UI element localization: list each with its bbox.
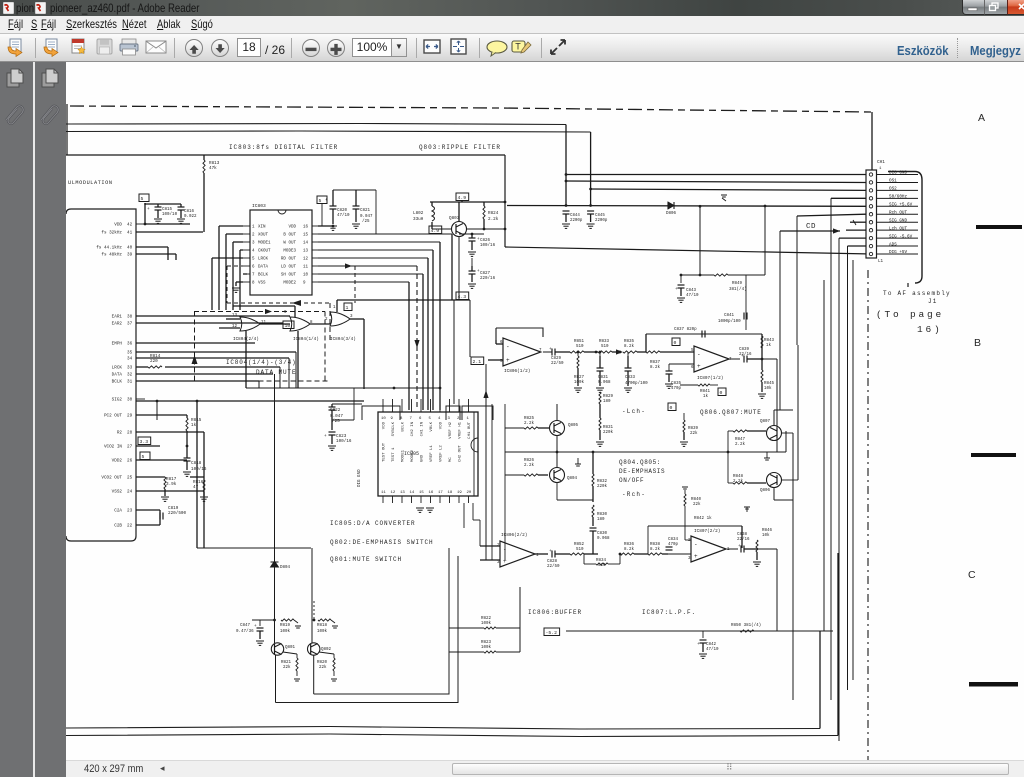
svg-text:35: 35 [127,351,133,356]
svg-text:1: 1 [879,167,882,171]
svg-text:33uH: 33uH [413,217,424,222]
svg-text:R818: R818 [317,624,328,628]
svg-text:IC805:D/A CONVERTER: IC805:D/A CONVERTER [330,520,416,527]
svg-text:SYBCLK: SYBCLK [392,421,396,436]
svg-text:C829: C829 [551,357,562,361]
svg-text:11: 11 [381,491,386,495]
svg-text:8: 8 [400,417,403,421]
svg-text:C2B: C2B [114,524,122,529]
svg-text:DE-EMPHASIS: DE-EMPHASIS [619,468,665,475]
svg-text:C843: C843 [686,289,697,293]
svg-text:IC807:L.P.F.: IC807:L.P.F. [642,609,696,616]
svg-text:LD OUT: LD OUT [281,266,297,270]
svg-text:L802: L802 [413,211,424,216]
svg-text:220k: 220k [597,484,608,489]
svg-text:5: 5 [142,454,145,460]
svg-text:IC804(3/4): IC804(3/4) [330,337,356,342]
svg-text:8.2k: 8.2k [624,547,635,552]
svg-text:R826: R826 [524,459,535,463]
svg-text:DIG GND: DIG GND [358,469,362,487]
svg-text:180: 180 [597,518,605,522]
svg-text:R843: R843 [764,339,775,343]
svg-text:IC804(1/4)-(3/4):: IC804(1/4)-(3/4): [226,359,301,366]
svg-text:31: 31 [127,380,133,385]
svg-text:+: + [325,198,328,203]
svg-text:8: 8 [252,282,255,286]
svg-text:IC807(1/2): IC807(1/2) [697,376,723,381]
svg-text:1: 1 [252,226,255,230]
svg-text:XIN: XIN [258,226,266,230]
svg-text:100k: 100k [317,629,328,634]
svg-text:22/16: 22/16 [737,537,750,542]
svg-text:A: A [978,112,985,124]
svg-text:14: 14 [303,242,309,246]
svg-text:22/16: 22/16 [739,352,752,357]
svg-text:MC: MC [449,457,453,462]
svg-text:4: 4 [252,250,255,254]
svg-text:C827: C827 [480,272,491,276]
svg-text:C841: C841 [724,314,735,318]
svg-text:TEST OUT: TEST OUT [383,442,387,462]
svg-text:VREF L1: VREF L1 [430,445,434,462]
svg-text:C828: C828 [547,560,558,564]
svg-text:220k: 220k [603,430,614,435]
svg-text:10: 10 [285,323,291,329]
svg-text:IC803: IC803 [252,203,266,209]
svg-text:MODE2: MODE2 [411,449,415,462]
svg-text:22k: 22k [693,502,701,507]
svg-text:VCO2 OUT: VCO2 OUT [101,476,122,481]
svg-text:22k: 22k [283,665,291,670]
svg-text:CKOUT: CKOUT [258,250,271,254]
svg-text:38: 38 [127,315,133,320]
svg-text:Q802:DE-EMPHASIS SWITCH: Q802:DE-EMPHASIS SWITCH [330,539,434,546]
svg-text:VCO2 IN: VCO2 IN [104,445,122,450]
svg-text:6: 6 [419,417,422,421]
svg-text:20: 20 [467,491,472,495]
svg-text:L1: L1 [878,260,884,264]
svg-text:+: + [506,357,510,364]
svg-text:100/16: 100/16 [191,467,207,472]
svg-text:2200p: 2200p [570,219,583,223]
svg-text:R842 1k: R842 1k [694,516,712,521]
svg-text:15: 15 [419,491,424,495]
svg-text:220: 220 [150,359,158,364]
svg-text:J1: J1 [928,298,938,305]
svg-text:VSS: VSS [258,282,266,286]
svg-text:R836: R836 [624,543,635,547]
svg-text:TEST 1: TEST 1 [392,447,396,462]
svg-text:C815: C815 [162,208,173,212]
svg-text:28: 28 [127,431,133,436]
svg-text:100k: 100k [574,380,585,385]
svg-text:180: 180 [603,400,611,404]
svg-text:C844: C844 [570,214,580,218]
svg-text:39: 39 [127,253,133,258]
svg-text:2.2k: 2.2k [524,463,535,468]
svg-text:R830: R830 [597,513,608,517]
svg-text:0: 0 [674,340,677,346]
svg-text:PC2 OUT: PC2 OUT [104,414,122,419]
svg-text:11: 11 [303,266,309,270]
svg-text:C: C [968,569,976,581]
svg-text:10: 10 [303,274,309,278]
svg-text:+: + [697,642,700,647]
svg-text:12: 12 [391,491,396,495]
svg-text:MODE1: MODE1 [258,242,271,246]
svg-text:15: 15 [303,234,309,238]
svg-text:8.2k: 8.2k [650,547,661,552]
svg-text:24: 24 [127,490,133,495]
svg-text:R829: R829 [603,395,614,399]
svg-text:RD OUT: RD OUT [281,258,297,262]
svg-text:36: 36 [127,342,133,347]
svg-text:Q804.Q805:: Q804.Q805: [619,459,661,466]
svg-text:R846: R846 [762,529,773,533]
svg-text:8.2k: 8.2k [624,344,635,349]
svg-text:MODE1: MODE1 [402,449,406,462]
svg-text:10k: 10k [762,533,770,538]
svg-text:16: 16 [303,226,309,230]
svg-text:+: + [147,207,150,212]
svg-text:C839: C839 [739,348,750,352]
svg-text:R850 381(/4): R850 381(/4) [731,623,761,628]
svg-text:EAR1: EAR1 [112,315,123,320]
svg-text:R823: R823 [481,641,492,645]
svg-text:CH2 OUT: CH2 OUT [459,445,463,462]
svg-text:40: 40 [127,246,133,251]
svg-text:1: 1 [333,306,336,310]
svg-text:0: 0 [670,405,673,411]
svg-text:22/50: 22/50 [551,361,564,366]
svg-text:C816: C816 [184,210,195,214]
svg-text:IC806(1/2): IC806(1/2) [504,369,530,374]
svg-text:30: 30 [127,398,133,403]
svg-text:-: - [697,351,701,358]
svg-text:0.022: 0.022 [184,215,197,219]
svg-text:-5.2: -5.2 [546,630,558,636]
svg-text:R848: R848 [733,475,744,479]
svg-text:CH1 IN: CH1 IN [421,421,425,436]
svg-text:5: 5 [319,198,322,204]
svg-text:3: 3 [252,242,255,246]
svg-text:R851: R851 [574,340,585,344]
svg-text:47/10: 47/10 [686,293,699,298]
svg-text:SH OUT: SH OUT [281,274,297,278]
svg-text:SIG2: SIG2 [112,398,123,403]
svg-text:26: 26 [127,459,133,464]
svg-text:Q803:RIPPLE FILTER: Q803:RIPPLE FILTER [419,144,501,151]
svg-text:32: 32 [127,373,133,378]
svg-text:R849: R849 [732,282,743,286]
svg-text:510: 510 [601,345,609,349]
svg-text:MODE2: MODE2 [283,282,296,286]
svg-text:LRCK: LRCK [258,258,269,262]
svg-text:7: 7 [539,349,542,353]
svg-text:VREF H2: VREF H2 [449,421,453,438]
svg-text:1k: 1k [766,343,772,348]
svg-text:To AF assembly: To AF assembly [883,290,951,297]
svg-text:2.2k: 2.2k [735,442,746,447]
svg-text:25: 25 [127,476,133,481]
svg-text:VDD: VDD [288,226,296,230]
svg-text:510: 510 [576,345,584,349]
svg-text:R821: R821 [281,661,292,665]
svg-text:22k: 22k [690,431,698,436]
svg-text:C820: C820 [337,209,348,213]
svg-text:IC804(1/4): IC804(1/4) [293,337,319,342]
svg-text:510: 510 [576,548,584,552]
svg-text:C821: C821 [360,209,371,213]
svg-text:10k: 10k [764,386,772,391]
svg-text:VREF H1: VREF H1 [459,421,463,438]
svg-text:220/16: 220/16 [480,276,496,281]
svg-text:+: + [697,363,701,370]
svg-text:ON/OFF: ON/OFF [619,477,644,484]
svg-text:R840: R840 [691,498,702,502]
svg-text:R835: R835 [624,340,635,344]
svg-text:5: 5 [429,417,432,421]
svg-text:4.3: 4.3 [458,294,467,300]
svg-text:4: 4 [438,417,441,421]
svg-text:Q804: Q804 [567,477,578,481]
svg-text:VDD: VDD [383,421,387,429]
svg-text:19: 19 [457,491,462,495]
svg-text:GND: GND [421,454,425,462]
svg-text:47/10: 47/10 [337,213,350,218]
svg-text:fs 32kHz: fs 32kHz [101,231,122,236]
svg-text:fs 48kHz: fs 48kHz [101,253,122,258]
svg-text:27: 27 [127,445,133,450]
svg-text:C838: C838 [737,533,748,537]
svg-text:1: 1 [467,417,470,421]
svg-text:R847: R847 [735,438,746,442]
svg-text:VDD: VDD [114,223,122,228]
svg-text:VREF L2: VREF L2 [440,445,444,462]
svg-text:34: 34 [127,357,133,362]
svg-text:IC806:BUFFER: IC806:BUFFER [528,609,582,616]
svg-text:Q806.Q807:MUTE: Q806.Q807:MUTE [700,409,762,416]
svg-text:R852: R852 [574,543,585,547]
svg-text:R832: R832 [597,480,608,484]
svg-text:/25: /25 [362,219,370,224]
svg-text:C830: C830 [597,532,608,536]
svg-text:100/16: 100/16 [336,439,352,444]
svg-text:23: 23 [127,509,133,514]
svg-text:W OUT: W OUT [283,242,296,246]
svg-text:16: 16 [429,491,434,495]
svg-text:9: 9 [303,282,306,286]
svg-text:VDD2: VDD2 [112,459,123,464]
svg-text:12: 12 [303,258,309,262]
svg-text:CH1: CH1 [877,160,885,165]
svg-text:-: - [694,541,698,548]
svg-text:C842: C842 [706,643,717,647]
svg-text:4.9: 4.9 [431,228,440,234]
svg-text:2200p: 2200p [595,219,608,223]
svg-text:0.47/36: 0.47/36 [236,629,254,634]
svg-text:R831: R831 [603,426,614,430]
svg-text:R2: R2 [117,431,123,436]
svg-text:47k: 47k [209,166,217,171]
svg-text:-Lch-: -Lch- [622,408,646,415]
svg-text:3.3: 3.3 [140,439,149,445]
svg-text:B OUT: B OUT [283,234,296,238]
svg-text:5: 5 [141,196,144,202]
svg-text:fs 44.1kHz: fs 44.1kHz [96,246,122,251]
svg-text:R833: R833 [599,340,610,344]
svg-text:381(/4): 381(/4) [729,287,747,292]
svg-text:B: B [974,337,981,349]
svg-text:+: + [694,553,698,560]
svg-text:Q801:MUTE SWITCH: Q801:MUTE SWITCH [330,556,402,563]
svg-text:T: T [515,42,521,52]
svg-text:R834: R834 [596,559,607,563]
svg-text:7: 7 [410,417,413,421]
svg-text:16): 16) [917,324,943,335]
svg-text:22k: 22k [319,665,327,670]
svg-text:+: + [675,287,678,292]
svg-text:100/10: 100/10 [162,212,178,217]
svg-text:IC807(2/2): IC807(2/2) [694,529,720,534]
svg-text:220/500: 220/500 [168,511,186,516]
svg-text:DATA: DATA [258,266,269,270]
svg-text:42: 42 [127,223,133,228]
svg-text:Q805: Q805 [568,424,579,428]
svg-text:XOUT: XOUT [258,234,269,238]
svg-text:DATA: DATA [112,373,123,378]
svg-text:0.068: 0.068 [597,537,610,541]
svg-text:BCLK: BCLK [112,380,123,385]
svg-text:R838: R838 [650,543,661,547]
svg-text:ULMODULATION: ULMODULATION [68,180,113,186]
svg-text:100k: 100k [280,629,291,634]
svg-text:+: + [254,624,257,629]
svg-text:13: 13 [232,314,238,318]
svg-text:VOLK: VOLK [430,421,434,431]
svg-text:0: 0 [720,390,723,396]
svg-text:6: 6 [252,266,255,270]
svg-text:VSS2: VSS2 [112,490,123,495]
svg-text:3: 3 [448,417,451,421]
svg-text:+: + [324,434,327,439]
svg-text:C2A: C2A [114,509,122,514]
svg-text:37: 37 [127,322,133,327]
svg-text:7: 7 [252,274,255,278]
svg-text:C837 820p: C837 820p [674,328,697,332]
svg-text:1k: 1k [703,394,709,399]
svg-text:Q806: Q806 [760,489,771,493]
svg-text:9: 9 [391,417,394,421]
svg-text:22/50: 22/50 [547,564,560,569]
svg-text:C826: C826 [480,239,491,243]
svg-text:18: 18 [448,491,453,495]
svg-text:C847: C847 [240,624,251,628]
svg-text:33: 33 [127,366,133,371]
svg-text:-: - [506,344,510,351]
svg-text:R837: R837 [650,361,661,365]
svg-text:R839: R839 [688,427,699,431]
svg-text:47/10: 47/10 [706,647,719,652]
svg-text:2.1: 2.1 [473,359,482,365]
svg-text:D804: D804 [280,566,291,570]
svg-text:5: 5 [252,258,255,262]
svg-text:2: 2 [252,234,255,238]
svg-text:47: 47 [193,485,199,490]
svg-text:Q803: Q803 [449,216,460,221]
svg-text:Q807: Q807 [760,420,771,424]
svg-text:Q802: Q802 [321,648,332,652]
svg-text:100k: 100k [481,645,492,650]
svg-text:R825: R825 [524,417,535,421]
svg-text:17: 17 [438,491,443,495]
svg-text:CH2 IN: CH2 IN [411,421,415,436]
svg-text:41: 41 [127,231,133,236]
svg-text:R827: R827 [574,376,585,380]
svg-text:2.2k: 2.2k [488,217,499,222]
svg-text:BCLK: BCLK [402,421,406,431]
svg-text:-Rch-: -Rch- [622,491,646,498]
svg-text:C845: C845 [595,214,605,218]
svg-text:13: 13 [303,250,309,254]
svg-text:EAR2: EAR2 [112,322,123,327]
svg-text:(To page: (To page [876,309,944,320]
svg-text:C834: C834 [668,538,679,542]
svg-text:R822: R822 [481,617,492,621]
svg-text:Q801: Q801 [285,646,296,650]
svg-text:1k: 1k [191,423,197,428]
svg-text:2.2k: 2.2k [524,421,535,426]
svg-text:R819: R819 [280,624,291,628]
svg-text:29: 29 [127,414,133,419]
svg-text:470p: 470p [671,387,682,391]
svg-text:BCLK: BCLK [258,274,269,278]
svg-text:0.047: 0.047 [360,215,373,219]
svg-text:D806: D806 [666,212,677,216]
svg-text:C818: C818 [191,461,202,466]
svg-text:3.9k: 3.9k [166,482,177,487]
svg-text:8.2k: 8.2k [650,365,661,370]
svg-text:R820: R820 [317,661,328,665]
svg-text:DATA MUTE: DATA MUTE [256,369,297,376]
svg-text:4.9: 4.9 [458,195,467,201]
svg-text:14: 14 [410,491,415,495]
svg-text:1000p/100: 1000p/100 [718,319,741,324]
svg-text:/25: /25 [332,419,340,424]
svg-text:2: 2 [325,318,328,322]
svg-text:R841: R841 [700,390,711,394]
svg-text:100k: 100k [481,621,492,626]
svg-text:R824: R824 [488,211,499,216]
svg-text:IC803:8fs DIGITAL FILTER: IC803:8fs DIGITAL FILTER [229,144,338,151]
svg-text:10: 10 [381,417,386,421]
svg-text:VDD: VDD [440,421,444,429]
svg-text:R845: R845 [764,382,775,386]
svg-text:22: 22 [127,524,133,529]
svg-text:1: 1 [346,305,349,311]
svg-text:MODE3: MODE3 [283,250,296,254]
svg-text:LRCK: LRCK [112,366,123,371]
svg-text:EMPH: EMPH [112,342,123,347]
svg-text:C833: C833 [625,376,636,380]
svg-text:CD: CD [806,223,816,231]
svg-text:100/16: 100/16 [480,243,496,248]
svg-text:CH1 OUT: CH1 OUT [468,421,472,438]
svg-text:13: 13 [400,491,405,495]
